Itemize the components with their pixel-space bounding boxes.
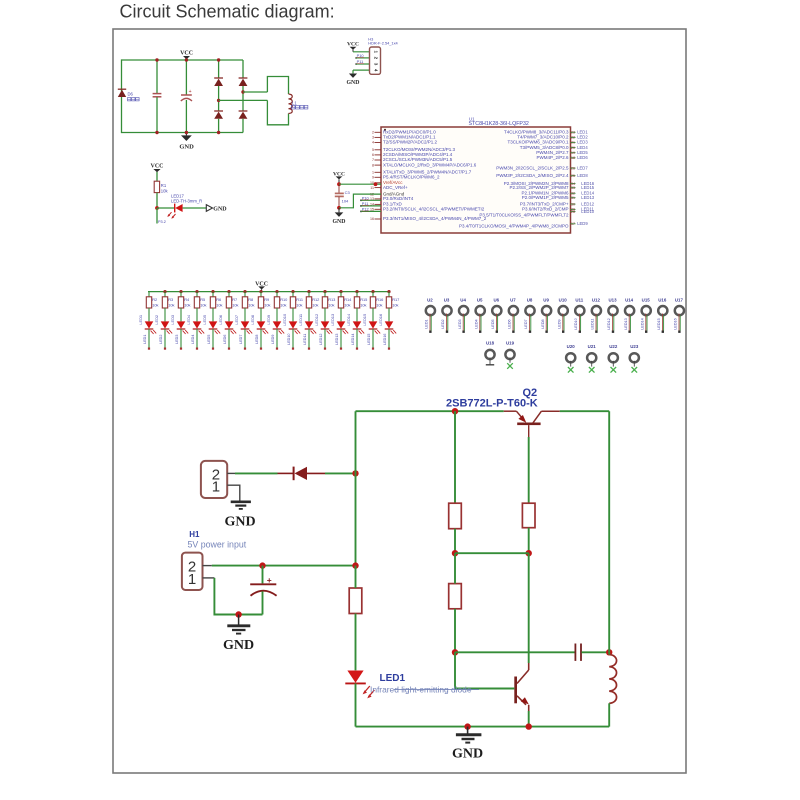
wire [325, 472, 356, 474]
svg-text:4: 4 [372, 141, 374, 145]
svg-text:26: 26 [571, 166, 575, 170]
net label P11 [360, 201, 381, 207]
LED LED10 [289, 321, 301, 334]
wire [276, 329, 278, 348]
wire [196, 308, 198, 321]
svg-text:2: 2 [372, 131, 374, 135]
svg-text:19: 19 [571, 151, 575, 155]
svg-text:P2.0/PWM1P_2/PWM5: P2.0/PWM1P_2/PWM5 [522, 195, 569, 200]
pin 32 LED14 [521, 191, 594, 196]
svg-text:3: 3 [372, 136, 374, 140]
svg-text:P5.4/RST/MCLKO/PWM6_2: P5.4/RST/MCLKO/PWM6_2 [383, 175, 440, 180]
wire [148, 308, 150, 321]
svg-text:10k: 10k [328, 303, 334, 308]
label R14 10k [344, 297, 352, 307]
svg-text:H1: H1 [189, 530, 200, 539]
pin 34 LED16 [504, 181, 595, 186]
junction [387, 290, 390, 293]
label R8 10k [248, 297, 254, 307]
junction [185, 58, 188, 61]
svg-text:4: 4 [373, 69, 378, 72]
wire [355, 683, 357, 726]
svg-text:LED3: LED3 [175, 335, 179, 344]
svg-text:21: 21 [571, 141, 575, 145]
svg-text:LED2: LED2 [441, 319, 445, 328]
svg-text:R4: R4 [184, 297, 190, 302]
svg-text:R7: R7 [232, 297, 237, 302]
svg-text:1: 1 [373, 51, 378, 54]
svg-text:U8: U8 [527, 297, 533, 302]
LED LED5 [209, 321, 221, 334]
wire [260, 329, 262, 348]
resistor R9 [258, 292, 263, 308]
wire [355, 411, 357, 565]
resistor R15 [354, 292, 359, 308]
svg-text:LED9: LED9 [577, 221, 588, 226]
wire [276, 308, 278, 321]
pin 15 P3.2/INT0/SCLK_4/I2CSCL_4/PWMETI/PWMETI2 [370, 207, 485, 212]
svg-text:LED15: LED15 [367, 334, 371, 345]
svg-text:U21: U21 [588, 344, 597, 349]
junction [374, 182, 378, 186]
svg-text:LED2: LED2 [154, 315, 159, 325]
svg-text:R8: R8 [248, 297, 253, 302]
svg-text:R3: R3 [168, 297, 173, 302]
junction [452, 649, 458, 655]
label R6 10k [216, 297, 222, 307]
ground GND [456, 727, 482, 743]
LED LED15 [369, 321, 381, 334]
svg-text:6: 6 [372, 153, 374, 157]
svg-text:R9: R9 [264, 297, 269, 302]
testpoint U5 [474, 297, 484, 333]
svg-text:LED8: LED8 [255, 335, 259, 344]
wire [292, 329, 294, 348]
pin end [148, 348, 150, 350]
svg-text:P3.7/INT3/TxD_2/CMP+: P3.7/INT3/TxD_2/CMP+ [520, 201, 569, 206]
svg-text:P3.2/INT0/SCLK_4/I2CSCL_4/PWME: P3.2/INT0/SCLK_4/I2CSCL_4/PWMETI/PWMETI2 [383, 207, 485, 212]
svg-text:GND: GND [347, 80, 360, 86]
pin end [180, 348, 182, 350]
pin 13 P3.0/RxD/INT4 [370, 196, 414, 201]
svg-text:11: 11 [370, 186, 374, 190]
svg-text:LED13: LED13 [335, 334, 339, 345]
svg-text:10k: 10k [392, 303, 398, 308]
testpoint U21 [587, 344, 596, 373]
wire [212, 308, 214, 321]
pin end [276, 348, 278, 350]
LED LED9 [273, 321, 285, 334]
wire [454, 609, 456, 653]
wire [454, 411, 456, 503]
capacitor C4 [153, 60, 162, 133]
wire [148, 329, 150, 348]
svg-text:R16: R16 [376, 297, 383, 302]
svg-text:P11: P11 [357, 59, 364, 64]
svg-text:R5: R5 [200, 297, 205, 302]
svg-text:R10: R10 [280, 297, 288, 302]
net label P12 [360, 206, 381, 212]
testpoint U15 [640, 297, 650, 333]
junction [243, 290, 246, 293]
LED LED6 [225, 321, 237, 334]
wire pin1 [203, 577, 215, 579]
LED LED7 [241, 321, 253, 334]
svg-text:U5: U5 [477, 297, 483, 302]
svg-text:31: 31 [571, 196, 575, 200]
pin 4 T2/SS/PWM2P/ADC2/P1.2 [372, 140, 438, 145]
testpoint U16 [657, 297, 667, 333]
wire [308, 329, 310, 348]
svg-text:LED7: LED7 [577, 165, 588, 170]
diode bridge branch B [239, 60, 248, 133]
LED LED17 [167, 204, 182, 219]
svg-text:R13: R13 [328, 297, 335, 302]
svg-text:U16: U16 [658, 297, 667, 302]
svg-text:10k: 10k [200, 303, 206, 308]
svg-text:LED5: LED5 [491, 319, 495, 328]
resistor R6 [210, 292, 215, 308]
resistor R17 [386, 292, 391, 308]
svg-text:LED3: LED3 [458, 319, 462, 328]
ground GND [227, 615, 250, 634]
testpoint U8 [524, 297, 534, 333]
svg-text:LED8: LED8 [250, 315, 255, 325]
wire [212, 565, 356, 567]
svg-text:LED3: LED3 [170, 315, 175, 325]
junction [179, 290, 182, 293]
junction [217, 99, 220, 102]
svg-text:LED7: LED7 [234, 315, 239, 325]
wire [528, 437, 530, 503]
pin 33 LED15 [509, 185, 594, 190]
svg-text:P3.5/T1/T0CLKO/SS_4/PWMFLT/PWM: P3.5/T1/T0CLKO/SS_4/PWMFLT/PWMFLT2 [479, 213, 569, 218]
wire [608, 703, 610, 726]
wire [228, 308, 230, 321]
resistor R16 [370, 292, 375, 308]
wire [308, 308, 310, 321]
junction [211, 290, 214, 293]
wire [356, 329, 358, 348]
svg-text:7: 7 [372, 158, 374, 162]
junction [371, 290, 374, 293]
wire [388, 308, 390, 321]
wire [528, 711, 530, 727]
resistor R1 [154, 181, 159, 192]
pin end [244, 348, 246, 350]
pin 22 LED2 [517, 135, 588, 140]
svg-text:U6: U6 [493, 297, 499, 302]
svg-text:10k: 10k [280, 303, 286, 308]
label 5V regulator [128, 98, 131, 101]
label R9 10k [264, 297, 270, 307]
wire [212, 329, 214, 348]
svg-text:25: 25 [571, 174, 575, 178]
svg-text:LED9: LED9 [557, 319, 561, 328]
svg-text:LED11: LED11 [298, 314, 303, 326]
pin end [324, 348, 326, 350]
pin end [388, 348, 390, 350]
wire [157, 207, 175, 209]
pin end [340, 348, 342, 350]
label R13 10k [328, 297, 335, 307]
svg-text:LED13: LED13 [624, 318, 628, 329]
LED LED1 [145, 321, 157, 334]
svg-text:9: 9 [372, 176, 374, 180]
svg-text:LED9: LED9 [271, 335, 275, 344]
wire [164, 329, 166, 348]
wire transformer loop lower [267, 100, 288, 124]
pin 6 2CSDA/MISO/PWM3P/ADC4/P1.4 [372, 152, 453, 157]
svg-text:U7: U7 [510, 297, 516, 302]
svg-text:3: 3 [373, 63, 378, 66]
pin 18 LED6 [536, 155, 588, 160]
svg-text:10k: 10k [161, 188, 169, 193]
svg-text:P12: P12 [362, 206, 369, 211]
svg-text:LED4: LED4 [474, 319, 478, 328]
capacitor C1 electrolytic [250, 566, 276, 615]
pin 26 LED7 [496, 165, 588, 170]
junction [241, 90, 244, 93]
net label P11 [357, 59, 364, 64]
svg-text:R15: R15 [360, 297, 367, 302]
wire [324, 329, 326, 348]
LED LED8 [257, 321, 269, 334]
svg-text:LED11: LED11 [303, 334, 307, 345]
svg-text:LED8: LED8 [577, 173, 588, 178]
wire [528, 553, 530, 663]
label R10 10k [280, 297, 288, 307]
svg-text:LED6: LED6 [223, 335, 227, 344]
wire [560, 410, 610, 412]
testpoint U22 [609, 344, 618, 373]
wire [355, 566, 357, 588]
pin 8 XTALO/MCLKO_2/RxD_3/PWM4P/ADC6/P1.6 [372, 162, 477, 167]
svg-text:T2/SS/PWM2P/ADC2/P1.2: T2/SS/PWM2P/ADC2/P1.2 [383, 140, 438, 145]
svg-text:LED1: LED1 [138, 315, 143, 325]
svg-text:LED13: LED13 [581, 195, 594, 200]
svg-text:R12: R12 [312, 297, 319, 302]
testpoint U12 [591, 297, 601, 333]
resistor R3 [162, 292, 167, 308]
resistor R_C [449, 584, 462, 609]
svg-text:P11: P11 [362, 201, 369, 206]
svg-text:R2: R2 [152, 297, 157, 302]
wire [454, 553, 456, 583]
svg-text:8: 8 [372, 163, 374, 167]
pin 23 LED1 [504, 130, 588, 135]
svg-text:LED4: LED4 [191, 335, 195, 344]
svg-text:LED15: LED15 [657, 318, 661, 329]
junction [275, 290, 278, 293]
svg-text:1: 1 [212, 479, 220, 496]
connector H3 [370, 47, 381, 74]
pin 30 LED12 [520, 201, 595, 206]
wire [244, 329, 246, 348]
testpoint U20 [566, 344, 575, 373]
LED LED13 [337, 321, 349, 334]
svg-text:LED13: LED13 [330, 314, 335, 326]
svg-text:10k: 10k [264, 303, 270, 308]
svg-text:17: 17 [571, 222, 575, 226]
testpoint U13 [607, 297, 617, 333]
svg-text:10k: 10k [312, 303, 318, 308]
svg-text:10k: 10k [360, 303, 366, 308]
svg-text:LED12: LED12 [314, 314, 319, 326]
svg-text:10k: 10k [216, 303, 222, 308]
wire [455, 651, 575, 653]
resistor R8 [242, 292, 247, 308]
svg-text:LED16: LED16 [383, 334, 387, 345]
pin 12 Gnd/AGnd [370, 191, 405, 196]
svg-text:+: + [267, 575, 272, 585]
wire [324, 308, 326, 321]
svg-text:U9: U9 [543, 297, 549, 302]
svg-text:P3.0/RxD/INT4: P3.0/RxD/INT4 [383, 196, 414, 201]
inductor (coil) [609, 655, 616, 704]
transistor Q2 [504, 411, 560, 437]
testpoint U10 [557, 297, 567, 333]
wire [244, 308, 246, 321]
wire [356, 308, 358, 321]
svg-text:LED12: LED12 [319, 334, 323, 345]
resistor R5 [194, 292, 199, 308]
label R5 10k [200, 297, 206, 307]
svg-text:LED16: LED16 [378, 314, 383, 326]
svg-text:10k: 10k [168, 303, 174, 308]
svg-text:XTALO/MCLKO_2/RxD_3/PWM4P/ADC6: XTALO/MCLKO_2/RxD_3/PWM4P/ADC6/P1.6 [383, 162, 477, 167]
svg-text:LED1: LED1 [143, 335, 147, 344]
svg-text:10k: 10k [376, 303, 382, 308]
svg-text:LED10: LED10 [282, 313, 287, 326]
wire [608, 411, 610, 652]
diode bridge branch A [214, 60, 223, 133]
wire [148, 291, 390, 293]
wire [292, 308, 294, 321]
wire [355, 614, 357, 671]
pin 21 LED3 [507, 140, 588, 145]
svg-text:STC8H1K28-36I-LQFP32: STC8H1K28-36I-LQFP32 [469, 121, 529, 127]
wire [582, 651, 610, 653]
wire pin1 to gnd [227, 485, 240, 501]
testpoint U18 [485, 340, 494, 365]
pin 16 P3.3/INT1/MISO_4/I2CSDA_4/PWM4N_4/PWM7_2 [370, 216, 487, 221]
pin end [228, 348, 230, 350]
label R15 10k [360, 297, 367, 307]
svg-text:Circuit Schematic diagram:: Circuit Schematic diagram: [120, 1, 335, 21]
testpoint U14 [624, 297, 634, 333]
wire [214, 578, 262, 615]
svg-text:GND: GND [223, 638, 254, 653]
testpoint U6 [491, 297, 501, 333]
pin numbers 1-4 [373, 51, 378, 72]
wire [356, 726, 610, 728]
svg-text:10k: 10k [344, 303, 350, 308]
svg-text:HDR-F-2.54_1x4: HDR-F-2.54_1x4 [368, 41, 398, 46]
transistor Q1 (NPN) [514, 663, 529, 711]
resistor R2 [146, 292, 151, 308]
svg-text:22: 22 [571, 136, 575, 140]
net label P10 [360, 195, 381, 201]
svg-text:16: 16 [370, 217, 374, 221]
connector J1 [201, 461, 227, 498]
wire [180, 308, 182, 321]
svg-text:10k: 10k [184, 303, 190, 308]
LED LED14 [353, 321, 365, 334]
LED LED11 [305, 321, 317, 334]
svg-text:L1: L1 [292, 100, 297, 105]
svg-text:LED14: LED14 [640, 318, 644, 329]
svg-text:LED4: LED4 [186, 314, 191, 325]
capacitor C3 [335, 184, 344, 208]
LED LED4 [193, 321, 205, 334]
resistor R11 [290, 292, 295, 308]
junction [307, 290, 310, 293]
testpoint U7 [508, 297, 518, 333]
ground GND [349, 74, 357, 78]
svg-text:LED10: LED10 [581, 209, 594, 214]
testpoint U19 [505, 340, 514, 369]
junction [464, 723, 470, 729]
svg-text:LED6: LED6 [508, 319, 512, 328]
wire [353, 69, 370, 71]
ground GND [185, 133, 187, 136]
ground GND port [206, 205, 212, 212]
junction [163, 290, 166, 293]
junction [195, 290, 198, 293]
junction [337, 182, 341, 186]
svg-text:PWM3N_2/I2CSCL_2/SCLK_2/P2.5: PWM3N_2/I2CSCL_2/SCLK_2/P2.5 [496, 165, 569, 170]
svg-text:33: 33 [571, 186, 575, 190]
wire pin2 [203, 565, 212, 567]
junction [526, 723, 532, 729]
wire [235, 472, 278, 474]
svg-text:10k: 10k [232, 303, 238, 308]
svg-text:GND: GND [224, 515, 255, 530]
svg-text:LED7: LED7 [239, 335, 243, 344]
svg-text:LED14: LED14 [351, 334, 355, 345]
svg-text:23: 23 [571, 131, 575, 135]
wire [372, 308, 374, 321]
svg-text:5V power input: 5V power input [188, 540, 247, 550]
svg-text:LED7: LED7 [524, 319, 528, 328]
junction [606, 649, 612, 655]
svg-text:VCC: VCC [151, 164, 164, 170]
pin 19 LED5 [536, 150, 588, 155]
wire [243, 91, 267, 93]
resistor R4 [178, 292, 183, 308]
svg-text:32: 32 [571, 192, 575, 196]
svg-text:U14: U14 [625, 297, 634, 302]
svg-text:LED12: LED12 [607, 318, 611, 329]
label Infrared light-emitting diode [370, 684, 479, 694]
junction [259, 562, 265, 568]
svg-text:30: 30 [571, 202, 575, 206]
wire [164, 308, 166, 321]
LED LED1 [345, 671, 374, 699]
pin 17 LED9 [571, 221, 589, 226]
testpoint U23 [630, 344, 639, 373]
label R12 10k [312, 297, 319, 307]
junction [217, 131, 220, 134]
svg-text:U10: U10 [559, 297, 568, 302]
svg-text:U2: U2 [427, 297, 433, 302]
svg-text:U15: U15 [642, 297, 651, 302]
junction [185, 131, 188, 134]
svg-text:R1: R1 [161, 183, 167, 188]
svg-text:GND: GND [452, 747, 483, 762]
net label P10 [357, 53, 365, 58]
